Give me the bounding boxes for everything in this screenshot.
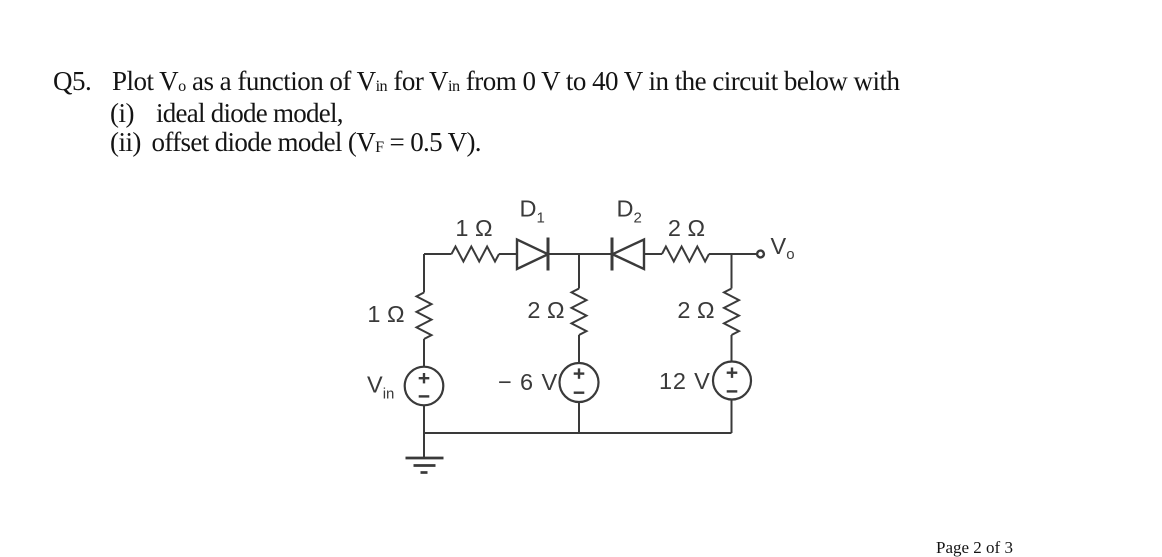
svg-text:2 Ω: 2 Ω: [677, 297, 714, 323]
svg-text:− 6 V: − 6 V: [498, 369, 558, 395]
svg-text:2 Ω: 2 Ω: [668, 215, 705, 241]
svg-text:D2: D2: [617, 196, 642, 227]
svg-text:D1: D1: [520, 196, 545, 227]
svg-text:1 Ω: 1 Ω: [367, 301, 404, 327]
svg-text:Vin: Vin: [367, 372, 394, 403]
svg-text:12 V: 12 V: [659, 368, 711, 394]
svg-text:2 Ω: 2 Ω: [527, 297, 564, 323]
svg-text:1 Ω: 1 Ω: [455, 215, 492, 241]
svg-text:Vo: Vo: [771, 233, 795, 263]
